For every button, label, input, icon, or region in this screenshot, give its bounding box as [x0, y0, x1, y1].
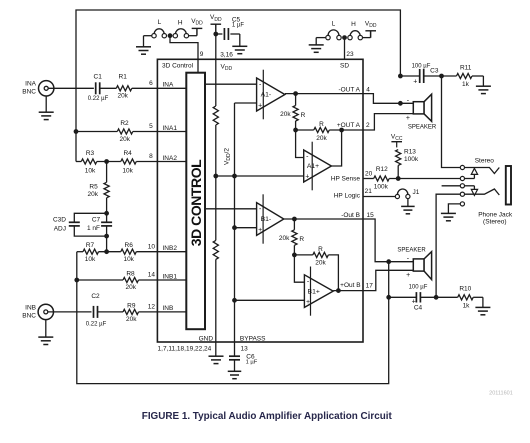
- capacitor C6 1uF: [229, 354, 258, 366]
- svg-text:C2: C2: [91, 293, 100, 300]
- svg-text:R: R: [319, 121, 324, 128]
- wire - jack ring switch: [465, 189, 500, 195]
- switch S2 L/H select (SD): [326, 20, 363, 39]
- svg-text:R1: R1: [119, 74, 128, 81]
- node - rail at B1+ input: [233, 298, 237, 302]
- label +Out B: [340, 282, 360, 289]
- svg-text:20111601: 20111601: [489, 390, 513, 396]
- wire - VDD to IC pin 3,16: [215, 24, 217, 59]
- op-amp A1-: [257, 70, 285, 120]
- pin 3,16 label: [220, 51, 233, 58]
- resistor - divider upper: [213, 106, 218, 125]
- svg-text:R13: R13: [404, 149, 416, 156]
- svg-text:20: 20: [365, 170, 373, 177]
- resistor R 20k (A upper): [280, 106, 305, 122]
- jack ring break contact: [465, 186, 478, 196]
- node - S1 wiper junction: [168, 34, 172, 38]
- svg-text:1,7,11,18,19,22,24: 1,7,11,18,19,22,24: [158, 346, 212, 353]
- svg-text:0.22 µF: 0.22 µF: [88, 96, 109, 102]
- node - A1- output: [294, 92, 298, 96]
- label -OUT A: [338, 87, 360, 94]
- node - rail at VDD/2 wire: [233, 174, 237, 178]
- wire - A1- output to pin 4 (-OUT A): [285, 93, 363, 95]
- wire - A1- output to R: [295, 94, 297, 106]
- svg-text:+: +: [406, 272, 410, 279]
- svg-text:1 µF: 1 µF: [232, 23, 244, 29]
- svg-text:VDD: VDD: [221, 63, 233, 72]
- svg-text:C3D: C3D: [53, 217, 66, 224]
- node - feedback rail to R2: [74, 130, 78, 134]
- wire - C2 to R9: [98, 311, 124, 313]
- svg-text:12: 12: [148, 304, 156, 311]
- wire - B1- output to pin 15 (-Out B): [284, 218, 363, 220]
- node - speaker A minus / C3 tap: [399, 101, 403, 105]
- svg-text:GND: GND: [199, 336, 214, 343]
- node - C3D/C7 top junction: [105, 211, 109, 215]
- pin 20 label: [365, 170, 373, 177]
- svg-text:20k: 20k: [120, 136, 131, 143]
- phone jack contacts: [460, 165, 464, 206]
- svg-text:INB: INB: [163, 305, 174, 312]
- resistor R3 10k: [81, 150, 97, 174]
- wire - R10 to ground: [473, 297, 483, 307]
- op-amp B1-: [257, 194, 284, 243]
- svg-text:+: +: [406, 115, 410, 122]
- pin 12 label: [148, 304, 156, 311]
- svg-text:20k: 20k: [88, 191, 99, 198]
- wire - rail to B1- noninverting input: [235, 227, 257, 229]
- wire - R6 to pin 10 INB2: [136, 251, 186, 253]
- svg-text:+Out B: +Out B: [340, 282, 360, 289]
- wire - C4 node up to jack ring: [436, 194, 460, 297]
- 3D CONTROL block: [186, 73, 205, 330]
- svg-text:J1: J1: [413, 189, 420, 196]
- wire - R7 to junction: [99, 251, 121, 253]
- wire - pin 17 to speaker B plus: [363, 270, 413, 290]
- wire - C3 to R11: [424, 75, 457, 77]
- wire - C6 to ground: [234, 360, 236, 372]
- capacitor C2 0.22uF: [86, 293, 107, 328]
- wire - S1 common to ground: [144, 36, 152, 47]
- svg-text:L: L: [332, 20, 336, 27]
- jack tip break contact: [465, 168, 478, 178]
- resistor R9 20k: [123, 302, 138, 323]
- resistor R10 1k: [458, 285, 474, 309]
- wire - 3D control to A1- inverting input: [205, 83, 257, 85]
- svg-text:R7: R7: [86, 242, 95, 249]
- ground - IC GND pin: [209, 356, 224, 363]
- svg-text:3D CONTROL: 3D CONTROL: [188, 159, 204, 246]
- wire - S1 wiper to pin 9: [170, 36, 198, 60]
- svg-text:R4: R4: [123, 150, 132, 157]
- wire - rail to R2: [76, 131, 117, 133]
- node - VDD/2 tap: [214, 174, 218, 178]
- wire - feedback node to R: [296, 129, 314, 131]
- wire - divider mid: [215, 125, 217, 240]
- wire - jack tip switch: [465, 168, 500, 174]
- wire - R3 to R4: [97, 161, 121, 163]
- wire - R12 to jack: [389, 178, 460, 180]
- svg-text:SPEAKER: SPEAKER: [397, 248, 426, 254]
- svg-text:1k: 1k: [463, 302, 471, 309]
- label GND: [199, 336, 214, 343]
- svg-text:100k: 100k: [404, 156, 419, 163]
- resistor R5 20k: [88, 182, 110, 198]
- svg-text:A1-: A1-: [261, 92, 272, 99]
- power VDD - left switch: [191, 18, 203, 35]
- svg-text:20k: 20k: [315, 260, 326, 267]
- label Stereo: [475, 158, 495, 165]
- svg-text:1 µF: 1 µF: [246, 360, 258, 366]
- svg-text:20k: 20k: [126, 316, 137, 323]
- wire - C1 to R1: [100, 87, 117, 89]
- pin 6 label: [149, 80, 153, 87]
- wire - R13 to HP sense node: [397, 165, 399, 178]
- wire - C5 to ground: [230, 34, 239, 46]
- capacitor C1 0.22uF: [88, 74, 109, 102]
- node - B1- output: [293, 217, 297, 221]
- svg-text:6: 6: [149, 80, 153, 87]
- svg-text:R6: R6: [125, 242, 134, 249]
- pin 14 label: [148, 272, 156, 279]
- wire - B feedback rail to R7: [77, 251, 83, 253]
- svg-text:R8: R8: [126, 270, 135, 277]
- ground - R10: [475, 307, 490, 314]
- resistor R8 20k: [123, 270, 138, 291]
- ground - jack sleeve: [441, 213, 456, 220]
- svg-text:2: 2: [366, 122, 370, 129]
- svg-text:Phone Jack: Phone Jack: [478, 212, 513, 219]
- svg-text:R5: R5: [89, 184, 98, 191]
- svg-text:10k: 10k: [122, 168, 133, 175]
- label VDD/2: [223, 148, 232, 165]
- svg-text:100 µF: 100 µF: [409, 285, 428, 291]
- label VDD (pin 3,16): [221, 63, 233, 72]
- wire - C3 left: [400, 75, 419, 77]
- wire - rail to C4: [389, 296, 417, 298]
- resistor - divider lower: [213, 240, 218, 259]
- node - B1+ output: [337, 289, 341, 293]
- jumper J1: [395, 189, 419, 199]
- svg-text:VDD: VDD: [365, 21, 377, 30]
- wire - VDD rail inside IC: [215, 59, 217, 106]
- resistor R7 10k: [83, 242, 99, 263]
- wire - VDD node to C5: [216, 33, 223, 35]
- pin 9 label: [200, 51, 204, 58]
- wire - common-mode rail to BYPASS pin 13: [234, 103, 236, 356]
- wire - S2 to ground: [316, 38, 326, 45]
- wire - VDD/2 to A1+ noninverting input: [216, 175, 304, 177]
- wire - R5 to C7 top node: [106, 198, 108, 222]
- wire - pin 21 to J1: [363, 196, 395, 198]
- wire - pin 15 to speaker B minus: [363, 219, 413, 262]
- svg-text:-Out B: -Out B: [341, 212, 360, 219]
- label INA2: [163, 155, 178, 162]
- wire - top feedback rail from R2/R3 node to C3 node: [76, 10, 400, 162]
- resistor R12 100k: [374, 166, 390, 191]
- svg-text:HP Logic: HP Logic: [334, 193, 361, 200]
- svg-text:13: 13: [241, 346, 249, 353]
- op-amp B1+: [304, 267, 333, 316]
- svg-text:H: H: [178, 20, 183, 27]
- node - VDD / C5 junction: [214, 32, 218, 36]
- svg-text:(Stereo): (Stereo): [483, 219, 506, 226]
- svg-text:R: R: [299, 236, 304, 243]
- pin 5 label: [149, 123, 153, 130]
- wire - R4 to pin 8 INA2: [136, 161, 186, 163]
- resistor R 20k (A feedback): [314, 121, 330, 142]
- svg-text:23: 23: [346, 51, 354, 58]
- wire - R to +OUT A: [329, 129, 363, 131]
- svg-text:10k: 10k: [85, 256, 96, 263]
- ground - C5: [232, 46, 247, 53]
- wire - S2 to VDD: [363, 31, 371, 38]
- power VDD - right switch: [365, 21, 377, 38]
- resistor R4 10k: [121, 150, 137, 174]
- wire - B rail to R8: [77, 279, 123, 281]
- node - C3 / jack junction: [440, 74, 444, 78]
- op-amp A1+: [304, 142, 332, 191]
- wire - C4 to R10: [420, 296, 457, 298]
- pin 21 label: [365, 188, 373, 195]
- svg-text:SD: SD: [340, 62, 349, 69]
- wire - pin 20 to R12: [363, 178, 374, 180]
- svg-text:0.22 µF: 0.22 µF: [86, 322, 107, 328]
- wire - INB BNC to ground: [45, 320, 47, 338]
- svg-text:B1-: B1-: [261, 216, 272, 223]
- wire - jack sense stub: [442, 185, 461, 187]
- svg-text:20k: 20k: [280, 111, 291, 118]
- wire - R2 to pin 5 INA1: [133, 131, 187, 133]
- svg-text:+: +: [413, 78, 417, 85]
- speaker A: [406, 94, 437, 130]
- node - R7/R6 junction: [105, 250, 109, 254]
- label Phone Jack (Stereo): [478, 212, 513, 226]
- pin 8 label: [149, 153, 153, 160]
- wire - R1 to pin 6 INA: [132, 87, 187, 89]
- switch S1 L/H select (3D Control): [152, 19, 189, 38]
- svg-text:VCC: VCC: [391, 133, 403, 142]
- pin 2 label: [366, 122, 370, 129]
- label HP Sense: [331, 176, 361, 183]
- resistor R 20k (B lower): [279, 230, 304, 245]
- node - +OUT A feedback junction: [340, 128, 344, 132]
- wire - R down to +Out B: [328, 255, 338, 291]
- connector INB BNC: [22, 304, 53, 319]
- wire - J1 to ground: [407, 199, 409, 207]
- svg-text:+: +: [412, 299, 416, 306]
- svg-text:R12: R12: [376, 166, 388, 173]
- label INB: [163, 305, 174, 312]
- svg-text:L: L: [158, 19, 162, 26]
- svg-text:A1+: A1+: [307, 163, 319, 170]
- wire - jack sleeve to ground: [448, 204, 460, 214]
- wire - C3 node down to jack tip: [442, 76, 461, 168]
- node - speaker B minus / rail tap: [387, 260, 391, 264]
- svg-text:21: 21: [365, 188, 373, 195]
- svg-text:1k: 1k: [462, 81, 470, 88]
- svg-text:VDD/2: VDD/2: [223, 148, 232, 165]
- power VDD - supply to pin 3,16: [210, 14, 222, 31]
- wire - rail to B1+ noninverting input: [235, 299, 305, 301]
- resistor R2 20k: [117, 120, 133, 143]
- wire - S1 to VDD: [189, 28, 197, 35]
- svg-text:VDD: VDD: [210, 14, 222, 23]
- capacitor C5 1uF: [224, 17, 244, 40]
- label GND pins 1,7,11,18,19,22,24: [158, 346, 212, 353]
- label SD (pin 23): [340, 62, 349, 69]
- ground - C6: [228, 371, 242, 378]
- op-amp IC U1 outline: [157, 59, 363, 342]
- svg-text:+: +: [258, 227, 262, 234]
- svg-text:R2: R2: [120, 120, 129, 127]
- wire - S2 wiper to pin 23: [344, 38, 346, 60]
- label -Out B: [341, 212, 360, 219]
- svg-text:INA: INA: [163, 82, 175, 89]
- resistor R13 100k: [396, 149, 419, 166]
- svg-text:5: 5: [149, 123, 153, 130]
- svg-text:1 nF: 1 nF: [87, 225, 100, 232]
- svg-text:10: 10: [148, 243, 156, 250]
- label 3D Control (pin 9): [162, 62, 194, 69]
- label INA: [163, 82, 175, 89]
- svg-text:ADJ: ADJ: [54, 226, 66, 233]
- svg-text:4: 4: [366, 87, 370, 94]
- svg-text:20k: 20k: [117, 93, 128, 100]
- svg-text:3,16: 3,16: [220, 51, 233, 58]
- wire - pin 2 to speaker A plus: [363, 114, 413, 130]
- svg-text:10k: 10k: [123, 256, 134, 263]
- wire - R to A1+ inverting input: [296, 121, 304, 158]
- svg-text:+: +: [306, 299, 310, 306]
- node - R bottom / feedback node: [294, 128, 298, 132]
- node - C3 left: [399, 74, 403, 78]
- resistor R 20k (B feedback): [313, 246, 329, 267]
- svg-text:R11: R11: [460, 65, 472, 72]
- node - C3D/C7 bottom junction: [105, 234, 109, 238]
- label BYPASS: [240, 336, 266, 343]
- label HP Logic: [334, 193, 361, 200]
- wire - INA BNC to C1: [48, 87, 94, 89]
- svg-text:INB1: INB1: [163, 273, 178, 280]
- wire - pin 4 to speaker A minus: [363, 94, 413, 104]
- svg-text:C3: C3: [430, 68, 439, 75]
- svg-text:20k: 20k: [126, 284, 137, 291]
- pin 10 label: [148, 243, 156, 250]
- svg-text:+OUT A: +OUT A: [337, 122, 361, 129]
- ground - S1 left: [136, 47, 151, 54]
- label INB1: [163, 273, 178, 280]
- label INA1: [163, 125, 178, 132]
- svg-text:INA: INA: [25, 81, 37, 88]
- wire - rail corner to R3: [76, 161, 81, 163]
- wire - B1+ output to pin 17 (+Out B): [333, 290, 363, 292]
- svg-text:INA2: INA2: [163, 155, 178, 162]
- svg-text:R9: R9: [127, 302, 136, 309]
- svg-text:15: 15: [367, 212, 375, 219]
- speaker B: [397, 248, 431, 280]
- svg-text:20k: 20k: [279, 235, 290, 242]
- document number 20111601: [489, 390, 513, 396]
- capacitor C3 100uF: [412, 64, 439, 86]
- svg-text:INA1: INA1: [163, 125, 178, 132]
- wire - junction down to R5: [106, 162, 108, 183]
- wire - 3D control to B1- inverting input: [205, 208, 257, 210]
- wire - B feedback node to R: [294, 254, 312, 256]
- wire - A1+ output up to +OUT A: [331, 130, 341, 166]
- ground - INB BNC: [38, 337, 53, 344]
- svg-text:BNC: BNC: [22, 312, 36, 319]
- svg-text:R10: R10: [459, 285, 471, 292]
- ground - R11: [476, 86, 491, 93]
- ground - S2 left: [309, 45, 324, 52]
- wire - INB BNC to C2: [48, 311, 92, 313]
- power VCC: [391, 133, 403, 147]
- resistor R11 1k: [457, 65, 473, 88]
- node - rail at R8: [75, 278, 79, 282]
- node - S2 wiper junction: [343, 36, 347, 40]
- wire - B1- output to R: [293, 219, 295, 230]
- ground - J1: [401, 206, 415, 213]
- wire - pin 9 into 3D control block: [197, 59, 199, 72]
- node - R12/R13 junction: [396, 177, 400, 181]
- pin 4 label: [366, 87, 370, 94]
- wire - R11 to ground: [472, 76, 483, 86]
- svg-text:HP Sense: HP Sense: [331, 176, 361, 183]
- phone jack body: [506, 166, 511, 205]
- svg-text:C1: C1: [94, 74, 103, 81]
- svg-text:R: R: [301, 112, 306, 119]
- svg-text:10k: 10k: [85, 168, 96, 175]
- svg-text:R: R: [318, 246, 323, 253]
- svg-text:9: 9: [200, 51, 204, 58]
- svg-text:20k: 20k: [316, 135, 327, 142]
- svg-text:14: 14: [148, 272, 156, 279]
- svg-text:-OUT A: -OUT A: [338, 87, 360, 94]
- svg-text:BNC: BNC: [22, 89, 36, 96]
- svg-text:100 µF: 100 µF: [412, 64, 431, 70]
- svg-text:H: H: [351, 21, 356, 28]
- node - R3/R4/R5 junction: [105, 160, 109, 164]
- wire - top node to C3D: [74, 213, 106, 222]
- svg-text:B1+: B1+: [308, 288, 320, 295]
- svg-text:INB: INB: [25, 304, 36, 311]
- wire - R9 to pin 12 INB: [139, 311, 187, 313]
- wire - C7 to bottom node: [106, 226, 108, 252]
- svg-text:SPEAKER: SPEAKER: [408, 124, 437, 130]
- wire - bottom feedback rail from R7 to C4 node: [77, 252, 389, 384]
- svg-text:3D Control: 3D Control: [162, 62, 194, 69]
- capacitor C3D ADJ: [53, 217, 80, 233]
- node - C4 / jack riser junction: [434, 295, 438, 299]
- resistor R1 20k: [116, 74, 132, 100]
- capacitor C4 100uF: [409, 285, 428, 312]
- svg-text:FIGURE 1. Typical Audio Amplif: FIGURE 1. Typical Audio Amplifier Applic…: [142, 411, 393, 422]
- svg-text:C7: C7: [92, 217, 101, 224]
- pin 13 label: [241, 346, 249, 353]
- pin 15 label: [367, 212, 375, 219]
- node - C4 left on rail: [387, 295, 391, 299]
- label +OUT A: [337, 122, 361, 129]
- wire - R to B1+ inverting input: [294, 245, 304, 282]
- capacitor C7 1nF: [87, 217, 112, 233]
- wire - INA BNC to ground: [45, 96, 47, 112]
- caption FIGURE 1: [142, 411, 393, 422]
- pin 23 label: [346, 51, 354, 58]
- svg-text:Stereo: Stereo: [475, 158, 495, 165]
- wire - C3D to bottom node: [74, 226, 106, 236]
- node - rail at B1- input: [233, 226, 237, 230]
